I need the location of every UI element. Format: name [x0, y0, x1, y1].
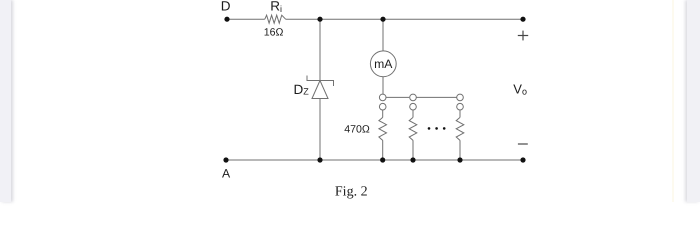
svg-text:Ri: Ri: [270, 0, 282, 14]
junction bottom branch 1: [380, 157, 385, 162]
terminal plug lower branch 1: [379, 103, 386, 110]
resistor R4 470 ohm branch 3 zigzag: [456, 117, 464, 140]
svg-text:Fig. 2: Fig. 2: [335, 185, 368, 200]
node terminal D: [224, 17, 229, 22]
wire meter branch lower: [382, 77, 384, 94]
wire zener branch upper: [319, 19, 321, 80]
wire branch 3 lower: [459, 140, 461, 160]
zener diode D1 Dz cathode bar: [307, 76, 334, 87]
page left edge band: [672, 0, 674, 202]
wire zener branch lower: [319, 99, 321, 161]
wire meter branch upper: [382, 19, 384, 51]
svg-text:A: A: [222, 167, 231, 181]
label polarity minus: [518, 143, 528, 144]
junction top of zener: [317, 17, 322, 22]
ammeter M1 mA circle: [370, 51, 396, 77]
junction top of meter: [380, 17, 385, 22]
wire load bank top rail segment 1: [386, 96, 409, 98]
wire branch 3 stub: [459, 110, 461, 117]
wire bottom rail: [226, 159, 523, 161]
junction bottom branch 2: [410, 157, 415, 162]
junction bottom branch 3: [457, 157, 462, 162]
ellipsis dots for more branches: [428, 127, 431, 130]
wire top rail right segment (Ri to + terminal): [286, 18, 523, 20]
junction bottom of zener: [317, 157, 322, 162]
node terminal A: [223, 157, 228, 162]
page right edge band: [687, 0, 700, 202]
svg-text:470Ω: 470Ω: [344, 123, 370, 135]
terminal plug lower branch 3: [457, 103, 464, 110]
svg-text:Vo: Vo: [513, 82, 527, 97]
svg-text:DZ: DZ: [294, 82, 310, 97]
resistor R1 Ri zigzag: [265, 15, 286, 23]
node terminal plus: [520, 17, 525, 22]
svg-text:D: D: [221, 0, 231, 13]
wire top rail left segment (D to Ri): [227, 18, 265, 20]
node terminal minus: [520, 157, 525, 162]
wire load bank top rail segment 2: [416, 96, 456, 98]
terminal socket upper branch 1: [379, 94, 386, 101]
wire branch 2 lower: [412, 140, 414, 160]
label polarity plus: [518, 31, 528, 41]
terminal socket upper branch 3: [457, 94, 464, 101]
svg-text:16Ω: 16Ω: [264, 27, 284, 39]
resistor R2 470 ohm branch 1 zigzag: [379, 117, 387, 140]
resistor R3 470 ohm branch 2 zigzag: [409, 117, 417, 140]
wire branch 1 stub: [382, 110, 384, 117]
svg-text:mA: mA: [374, 57, 393, 71]
wire branch 2 stub: [412, 110, 414, 117]
terminal plug lower branch 2: [410, 103, 417, 110]
wire branch 1 lower: [382, 140, 384, 160]
zener diode D1 Dz triangle: [312, 81, 328, 99]
terminal socket upper branch 2: [410, 94, 417, 101]
